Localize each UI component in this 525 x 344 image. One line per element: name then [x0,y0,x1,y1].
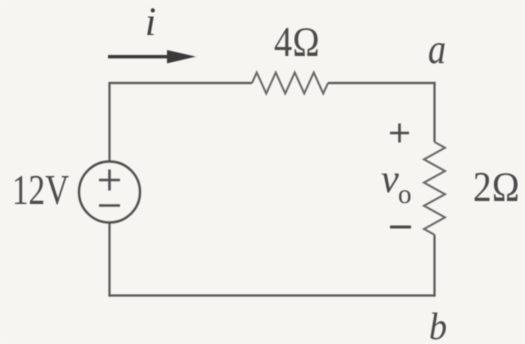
svg-text:b: b [429,306,447,344]
plus label at resistor R2 [390,124,409,143]
svg-text:4Ω: 4Ω [274,20,320,66]
wire top-left vertical (source to top-left corner) [108,83,110,162]
svg-text:o: o [398,179,412,209]
svg-text:i: i [145,0,156,44]
wire top right segment [328,82,436,84]
current arrow [108,50,196,63]
wire top left segment [108,82,252,84]
resistor R1 4ohm zigzag [252,73,328,94]
wire right upper vertical [433,82,435,142]
wire right lower vertical [433,235,435,297]
minus label at resistor R2 [390,226,411,229]
svg-text:12V: 12V [12,168,69,214]
svg-text:2Ω: 2Ω [473,165,520,211]
wire bottom-left vertical (source to bottom wire) [108,223,110,297]
resistor R2 2ohm zigzag [424,142,445,235]
wire bottom [108,294,435,296]
voltage source plus sign [99,170,120,191]
svg-text:v: v [381,156,399,201]
voltage source V1 circle [79,162,140,223]
voltage source minus sign [99,204,120,207]
svg-text:a: a [428,27,446,73]
